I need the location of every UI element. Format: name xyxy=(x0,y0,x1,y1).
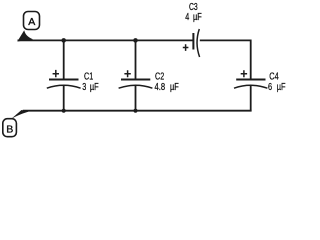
svg-text:3: 3 xyxy=(82,81,86,92)
node junction dot bottom C2 xyxy=(133,109,137,113)
label C3 value xyxy=(185,1,202,22)
node junction dot bottom C1 xyxy=(62,109,66,113)
capacitor C3 xyxy=(183,29,200,57)
capacitor C4 xyxy=(234,70,267,88)
wire C1 branch bottom xyxy=(63,85,65,111)
svg-text:B: B xyxy=(6,123,13,135)
node junction dot top C1 xyxy=(61,38,66,43)
svg-text:A: A xyxy=(28,16,35,28)
label C2 value xyxy=(155,71,180,93)
svg-text:µF: µF xyxy=(90,81,99,92)
wire right column lower xyxy=(250,85,252,111)
capacitor C2 xyxy=(119,70,153,88)
wire bottom bus B xyxy=(23,110,252,112)
svg-text:6: 6 xyxy=(268,81,272,92)
wire top right segment to corner xyxy=(200,40,251,80)
wire top bus A xyxy=(18,39,194,41)
wire C1 branch top xyxy=(63,40,65,79)
capacitor C1 xyxy=(47,70,81,88)
wire C2 branch top xyxy=(135,40,137,79)
node B flag xyxy=(3,110,29,137)
label C1 value xyxy=(82,71,99,93)
svg-text:µF: µF xyxy=(277,81,286,92)
svg-text:µF: µF xyxy=(170,81,179,92)
wire C2 branch bottom xyxy=(135,85,137,111)
node junction dot top C2 xyxy=(133,38,138,43)
svg-text:µF: µF xyxy=(193,11,202,22)
svg-text:4: 4 xyxy=(185,11,189,22)
label C4 value xyxy=(268,71,286,93)
svg-text:4.8: 4.8 xyxy=(155,81,166,92)
node A flag xyxy=(17,12,39,42)
